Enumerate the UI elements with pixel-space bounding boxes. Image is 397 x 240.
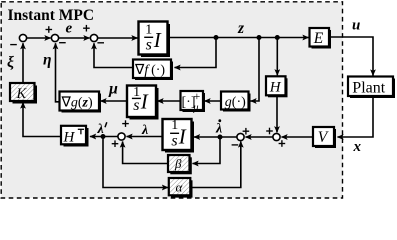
summing junction Ca xyxy=(118,133,125,140)
svg-text:μ: μ xyxy=(192,103,198,114)
svg-text:+: + xyxy=(194,89,201,103)
wire C3 to integrator U1 xyxy=(98,37,138,39)
g block xyxy=(221,92,251,112)
svg-text:H: H xyxy=(63,129,76,145)
svg-text:I: I xyxy=(178,125,187,149)
wire C1 to C2 xyxy=(27,37,51,39)
integrator U3 xyxy=(163,118,195,152)
wire HT output to K xyxy=(23,103,61,137)
summing junction Cb xyxy=(237,133,244,140)
summing junction C1 xyxy=(19,34,26,41)
svg-text:x: x xyxy=(353,139,362,155)
wire lambda-prime down to alpha input xyxy=(103,137,168,188)
svg-text:1: 1 xyxy=(171,118,178,133)
wire g to clamp block xyxy=(205,100,222,102)
sign plus at C2 xyxy=(46,26,53,33)
wire z down to H input xyxy=(276,38,278,76)
wire z down to g input xyxy=(251,38,260,102)
svg-text:1: 1 xyxy=(145,23,152,38)
sign minus at Cb xyxy=(232,144,239,146)
svg-text:λ: λ xyxy=(141,123,148,138)
H block xyxy=(266,76,288,97)
wire beta output up to Ca xyxy=(123,142,169,164)
svg-text:λ: λ xyxy=(215,122,222,137)
wire lambda-dot down to beta input xyxy=(193,137,221,164)
sign plus at C3 xyxy=(83,25,90,32)
svg-text:I: I xyxy=(153,28,162,52)
E block xyxy=(310,28,332,49)
K block xyxy=(10,83,37,104)
svg-text:s: s xyxy=(133,97,139,114)
svg-text:g(·): g(·) xyxy=(225,95,246,110)
svg-text:α: α xyxy=(176,179,184,194)
sign plus at Cb xyxy=(243,128,250,135)
svg-text:u: u xyxy=(352,18,360,34)
wire C2 to C3 (e) xyxy=(59,37,90,39)
junction dot on z to gradient f xyxy=(214,35,219,40)
svg-text:Plant: Plant xyxy=(352,80,385,97)
svg-text:e: e xyxy=(66,21,73,37)
svg-text:μ: μ xyxy=(108,81,118,98)
svg-text:∇f (·): ∇f (·) xyxy=(134,63,165,78)
svg-text:E: E xyxy=(313,30,324,47)
svg-text:Instant MPC: Instant MPC xyxy=(8,7,95,24)
wire K output up to C1 (xi) xyxy=(22,43,24,83)
summing junction C3 xyxy=(90,34,97,41)
Plant block xyxy=(348,77,395,99)
HT block xyxy=(61,126,89,147)
svg-text:η: η xyxy=(43,52,52,69)
beta block xyxy=(168,155,192,174)
svg-text:s: s xyxy=(171,132,177,149)
sign minus at C2 xyxy=(59,42,66,44)
gradient g block xyxy=(60,92,102,113)
svg-text:H: H xyxy=(269,80,282,96)
wire U2 to gradient g (mu) xyxy=(101,100,128,102)
MPC dashed region xyxy=(1,2,342,198)
V block xyxy=(313,127,336,148)
wire z down to gradient f input xyxy=(175,38,217,68)
sign minus at C3 xyxy=(97,42,104,44)
alpha block xyxy=(169,178,193,198)
svg-text:s: s xyxy=(146,36,152,53)
wire clamp to integrator U2 xyxy=(158,100,181,102)
summing junction Cc xyxy=(273,133,280,140)
svg-text:K: K xyxy=(16,86,28,102)
gradient f block xyxy=(133,60,173,81)
junction dot lambda-dot to beta xyxy=(218,135,223,140)
svg-text:V: V xyxy=(318,129,329,146)
wire Cc to Cb xyxy=(246,136,273,138)
wire alpha output up to Cb xyxy=(191,142,241,188)
svg-text:ξ: ξ xyxy=(7,54,14,71)
svg-text:z: z xyxy=(237,20,244,37)
wire V to Cc xyxy=(282,136,314,138)
junction dot lambda-prime to alpha xyxy=(101,134,106,139)
wire U3 to Ca (lambda) xyxy=(127,136,164,138)
svg-text:I: I xyxy=(140,90,149,114)
wire gradient f output up to C3 xyxy=(94,43,133,67)
integrator U1 xyxy=(139,22,171,58)
svg-text:∇g(z): ∇g(z) xyxy=(61,95,94,110)
integrator U2 xyxy=(127,85,159,120)
clamp block xyxy=(181,89,206,114)
junction dot on z to g xyxy=(257,35,262,40)
sign plus bottom at Cc xyxy=(279,140,286,147)
wire E to Plant (u) xyxy=(329,37,373,76)
sign plus top at Cc xyxy=(266,128,273,135)
wire Cb to integrator U3 (lambda dot) xyxy=(194,136,237,138)
sign plus bottom at Ca xyxy=(112,140,119,147)
sign minus at C1 xyxy=(10,44,17,46)
wire Ca to HT (lambda prime) xyxy=(90,136,118,138)
wire z line from U1 to E xyxy=(168,37,309,39)
summing junction C2 xyxy=(51,34,58,41)
junction dot on z to H xyxy=(275,35,280,40)
wire Plant to V (x) xyxy=(338,97,374,138)
svg-text:β: β xyxy=(174,156,182,171)
wire gradient g output up to C2 (eta) xyxy=(56,43,60,102)
wire H output down to Cc xyxy=(276,95,278,132)
sign plus top at Ca xyxy=(122,120,129,127)
